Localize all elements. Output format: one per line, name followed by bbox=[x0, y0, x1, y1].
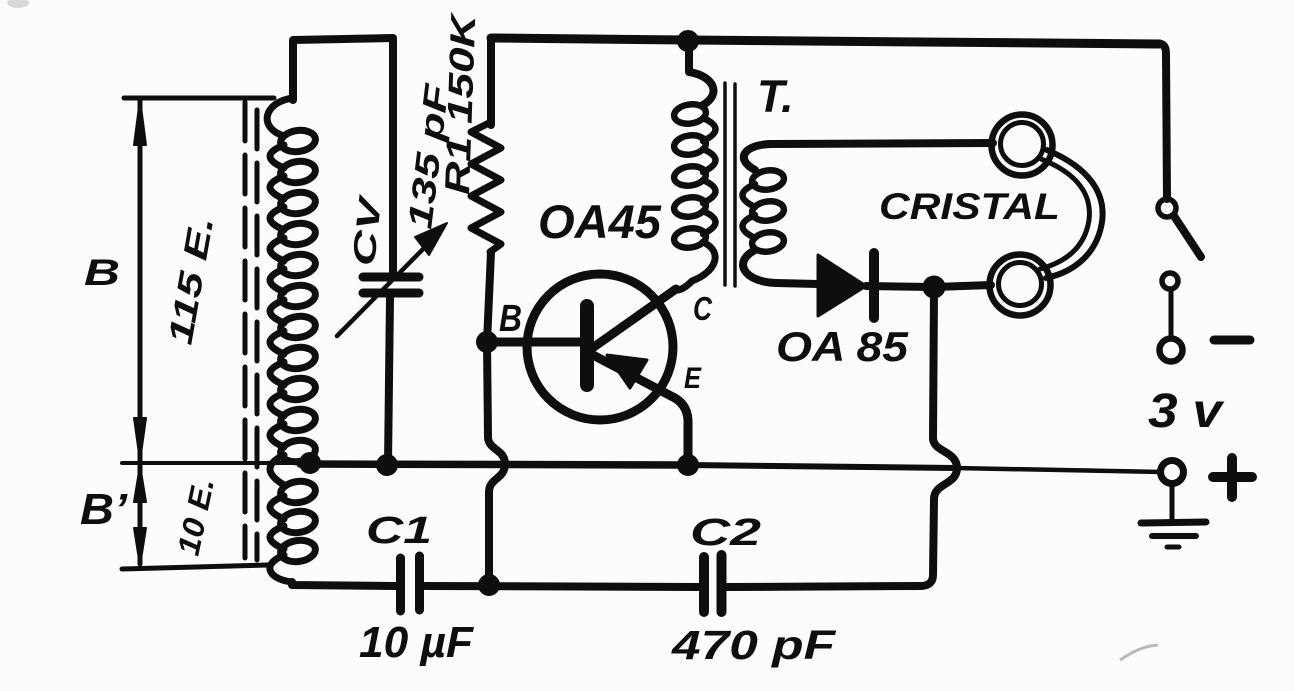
svg-text:C2: C2 bbox=[690, 512, 761, 554]
arrowhead down (bottom of B) bbox=[134, 418, 146, 461]
coil L1 bottom lead bbox=[270, 555, 292, 585]
scan speck top-left bbox=[7, 0, 29, 8]
capacitor C2 left plate bbox=[699, 557, 709, 612]
earphone band outer arc bbox=[1046, 150, 1103, 278]
top rail bbox=[491, 38, 1160, 44]
svg-text:C: C bbox=[693, 290, 713, 327]
coil L1 winding (10 E section) bbox=[270, 455, 317, 564]
battery minus terminal circle bbox=[1160, 339, 1183, 362]
wire top rail to switch bbox=[1160, 44, 1167, 199]
svg-text:3 v: 3 v bbox=[1148, 385, 1225, 438]
wire diode to junction bbox=[866, 286, 932, 287]
ground bar 2 bbox=[1152, 533, 1196, 539]
switch lever bbox=[1174, 216, 1201, 257]
ground bar 3 bbox=[1167, 545, 1179, 550]
coil L1 top hook bbox=[267, 98, 293, 136]
earphone bottom terminal outer bbox=[990, 255, 1051, 316]
diode D1 cathode bar bbox=[869, 253, 879, 318]
arrowhead up (top of B) bbox=[134, 99, 146, 145]
ground bar 1 bbox=[1141, 522, 1206, 523]
earphone top terminal inner bbox=[1001, 123, 1044, 166]
transformer T primary bottom lead to collector bbox=[674, 242, 715, 290]
earphone bottom terminal inner bbox=[999, 263, 1042, 306]
dimension line B bbox=[138, 101, 143, 460]
svg-text:CRISTAL: CRISTAL bbox=[879, 186, 1060, 227]
transformer T primary winding bbox=[673, 102, 716, 249]
coil L1 winding (115 E section) bbox=[270, 128, 317, 464]
emitter wire bbox=[593, 355, 688, 463]
battery minus sign bbox=[1214, 336, 1250, 345]
emitter arrowhead (PNP) bbox=[607, 355, 647, 388]
junction top rail / transformer bbox=[678, 31, 698, 51]
transformer T secondary winding bbox=[743, 168, 786, 253]
scan scribble bottom right bbox=[1120, 645, 1158, 660]
svg-text:470 pF: 470 pF bbox=[671, 622, 836, 668]
svg-text:E: E bbox=[684, 362, 702, 395]
base wire bbox=[489, 338, 581, 347]
wire junction to earphone bottom bbox=[935, 285, 991, 287]
svg-text:OA 85: OA 85 bbox=[776, 323, 909, 370]
variable capacitor CV top plate bbox=[363, 273, 419, 282]
junction coil tap / middle rail bbox=[300, 453, 320, 473]
middle rail right section bbox=[688, 465, 955, 468]
bottom rail segment 2 bbox=[425, 586, 698, 587]
wire CV bottom to middle rail bbox=[388, 297, 390, 464]
svg-text:CV: CV bbox=[345, 192, 388, 267]
ground stem bbox=[1170, 483, 1175, 521]
wire R1 bottom to base junction bbox=[487, 252, 491, 342]
bottom rail segment 3 bbox=[727, 586, 921, 587]
resistor R1 150K zigzag bbox=[471, 122, 501, 252]
middle rail (ground rail) bbox=[300, 464, 688, 465]
junction diode / earphone bbox=[924, 277, 945, 298]
svg-text:B: B bbox=[499, 298, 522, 340]
switch fixed contact bbox=[1158, 199, 1176, 217]
junction CV / middle rail bbox=[377, 455, 397, 475]
transistor Q1 circle bbox=[527, 274, 673, 420]
battery plus terminal circle bbox=[1161, 461, 1184, 484]
dimension tick middle (B/B' boundary) bbox=[122, 461, 300, 465]
arrowhead up (top of B') bbox=[134, 465, 146, 502]
ferrite rod dashed line left bbox=[243, 102, 248, 558]
transformer core line left bbox=[723, 83, 727, 285]
transformer T secondary top lead / wire to earphone top bbox=[744, 143, 993, 170]
transformer core line right bbox=[733, 84, 737, 286]
svg-text:OA45: OA45 bbox=[538, 195, 662, 248]
battery plus sign bbox=[1213, 458, 1252, 497]
arrowhead down (bottom of B') bbox=[134, 528, 146, 566]
wire R1 top to top rail bbox=[487, 38, 495, 125]
junction emitter / middle rail bbox=[678, 455, 698, 475]
CV arrow line bbox=[337, 236, 436, 336]
svg-text:R1 150K: R1 150K bbox=[438, 10, 483, 195]
wire diode junction down with hop over middle rail, to bottom rail bbox=[920, 291, 957, 586]
svg-text:B’: B’ bbox=[80, 485, 128, 534]
capacitor C1 right plate bbox=[415, 556, 424, 610]
wire switch contact to battery terminal bbox=[1169, 289, 1174, 339]
dimension tick top bbox=[124, 96, 274, 101]
junction base / R1 bbox=[477, 332, 497, 352]
svg-text:C1: C1 bbox=[366, 510, 432, 552]
wire base junction down with hop over middle rail bbox=[487, 342, 505, 583]
bottom rail segment 1 bbox=[292, 582, 395, 586]
svg-text:10 µF: 10 µF bbox=[359, 618, 474, 667]
dimension line B' bbox=[138, 466, 143, 564]
dimension tick bottom bbox=[122, 565, 268, 569]
ferrite rod dashed line right bbox=[255, 110, 260, 560]
capacitor C1 left plate bbox=[396, 558, 405, 611]
diode D1 OA85 triangle bbox=[818, 255, 866, 316]
capacitor C2 right plate bbox=[717, 555, 727, 612]
coil L1 top lead wire to CV bbox=[293, 38, 393, 272]
svg-text:B: B bbox=[84, 252, 120, 293]
earphone band inner arc bbox=[1040, 159, 1089, 269]
transformer T primary top lead bbox=[689, 44, 714, 105]
CV arrowhead bbox=[415, 223, 447, 255]
switch lower contact bbox=[1162, 273, 1178, 289]
middle rail thin section to battery bbox=[955, 468, 1161, 472]
collector wire bbox=[591, 289, 676, 349]
transformer T secondary bottom lead / wire to diode bbox=[743, 250, 818, 284]
svg-text:T.: T. bbox=[757, 71, 794, 122]
variable capacitor CV bottom plate bbox=[363, 289, 419, 298]
earphone top terminal outer bbox=[992, 115, 1053, 176]
junction bottom rail bbox=[479, 575, 499, 595]
transistor base bar bbox=[580, 306, 594, 385]
